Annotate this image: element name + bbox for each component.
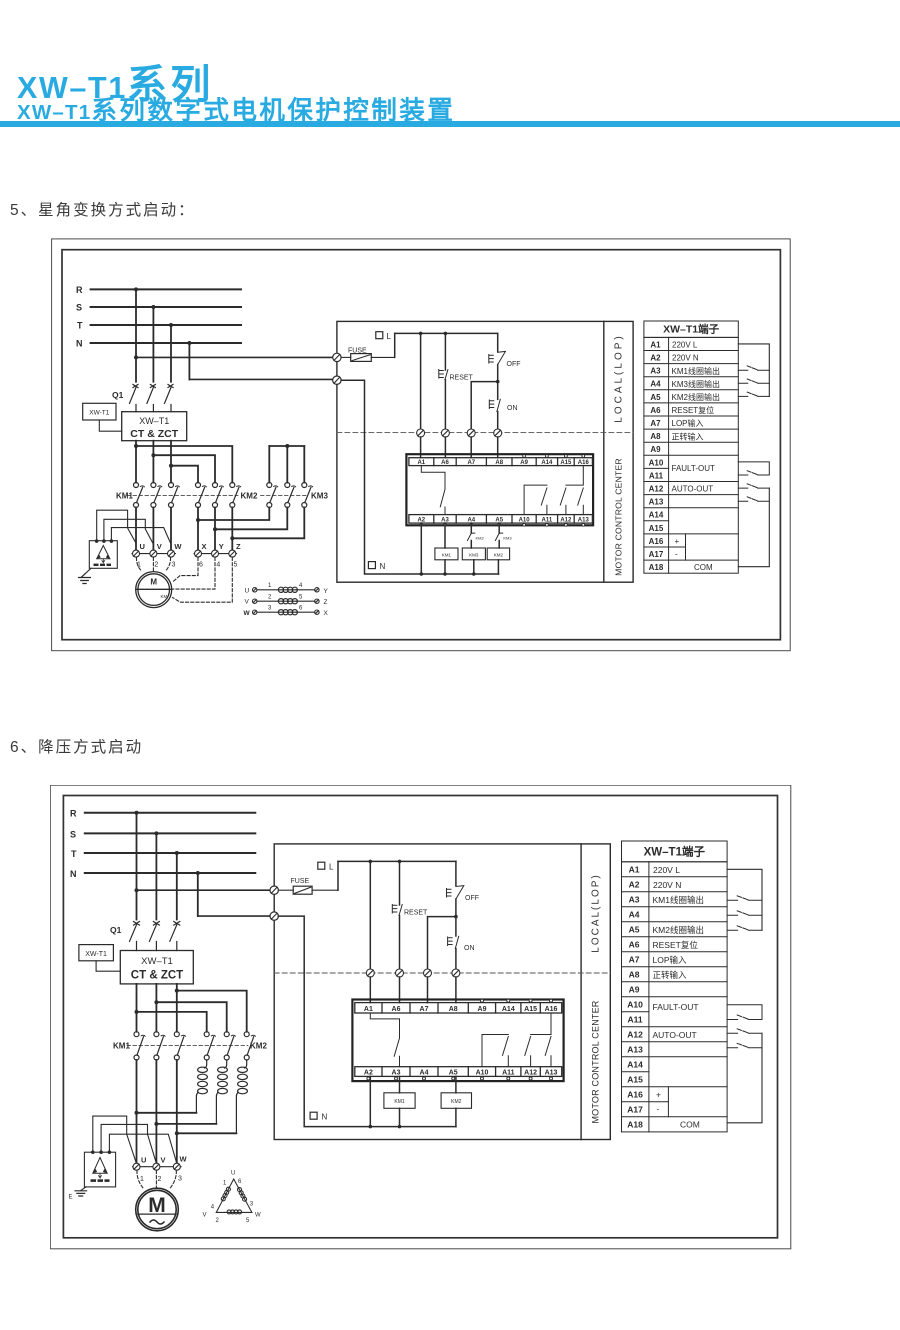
svg-text:4: 4 (211, 1205, 215, 1211)
svg-text:6: 6 (199, 562, 203, 569)
wire RESET column lower (444, 380, 446, 429)
svg-text:2: 2 (268, 594, 272, 600)
dashed link 3 to motor (166, 558, 171, 572)
labels X Y Z (202, 542, 242, 551)
external contact at A4 (738, 379, 769, 383)
coil KM1 (384, 1093, 415, 1109)
XW-T1 relay small box (79, 945, 114, 961)
svg-text:V: V (157, 542, 162, 551)
delta winding diagram (203, 1171, 262, 1225)
node (398, 1125, 402, 1129)
legend N lamp (368, 562, 385, 571)
svg-text:正转输入: 正转输入 (653, 970, 688, 980)
relay top spare terminal circles (523, 455, 585, 458)
table signal labels (672, 340, 720, 572)
wire A2 to N bus (369, 1076, 371, 1126)
external auto-out contact A12 (738, 484, 769, 488)
wire feed phase1 to KM2 pole1 (137, 1012, 207, 1032)
legend L lamp (376, 332, 392, 342)
svg-text:N: N (70, 869, 77, 879)
dashed link 1 to motor (137, 1171, 143, 1189)
svg-text:A15: A15 (524, 1006, 537, 1013)
phase line S (85, 832, 256, 834)
svg-text:A16: A16 (627, 1090, 643, 1100)
wire KM2 outputs to XYZ (198, 508, 232, 551)
external contact at A4 (727, 911, 762, 916)
relay top terminal row (355, 1003, 562, 1013)
winding W-X (244, 605, 329, 617)
section 6 heading (10, 735, 143, 757)
svg-text:AUTO-OUT: AUTO-OUT (653, 1030, 697, 1040)
MCC LOP dashed divider (274, 972, 610, 974)
svg-text:W: W (174, 542, 182, 551)
external auto-out contact A13 (738, 497, 769, 501)
winding V-Z (245, 594, 328, 606)
relay unit box (352, 1000, 563, 1082)
ZCT hook 1 (93, 1116, 137, 1164)
fuse FU (278, 878, 338, 894)
svg-text:XW-T1: XW-T1 (85, 951, 107, 958)
reactor L2 (216, 1060, 227, 1124)
wire RESET column lower (399, 916, 401, 970)
terminal X (195, 550, 202, 557)
svg-text:A5: A5 (629, 925, 640, 935)
svg-text:Y: Y (219, 542, 224, 551)
svg-text:A8: A8 (495, 460, 503, 466)
wire to A1 cell (369, 977, 371, 1003)
svg-text:A6: A6 (392, 1006, 401, 1013)
svg-text:A2: A2 (629, 880, 640, 890)
node (420, 572, 424, 576)
terminal LOP A6 (396, 969, 404, 977)
contactor KM1 poles (134, 1032, 186, 1060)
wire node to ON (455, 917, 457, 936)
contactor KM2 poles (204, 1032, 255, 1060)
svg-text:XW–T1端子: XW–T1端子 (663, 323, 720, 336)
wire node to ON (497, 382, 499, 400)
wire A2 to N bus (420, 523, 422, 574)
svg-text:-: - (657, 1104, 660, 1114)
relay top terminal row (409, 458, 593, 466)
svg-text:A6: A6 (441, 460, 449, 466)
ZCT hook 2 (104, 519, 154, 544)
svg-text:-: - (675, 550, 678, 559)
wire KM3 return 1 (198, 508, 269, 521)
svg-text:LOP输入: LOP输入 (653, 955, 688, 965)
wire R drop (136, 813, 138, 920)
legend L lamp (318, 862, 334, 872)
dashed link 6 to motor (173, 558, 198, 582)
phase line R (91, 288, 241, 290)
svg-text:Z: Z (236, 542, 241, 551)
dashed link 2 to motor (152, 558, 154, 571)
svg-text:+: + (675, 537, 680, 546)
relay unit box (406, 454, 593, 525)
node (419, 332, 423, 336)
svg-text:A17: A17 (627, 1105, 643, 1115)
svg-text:KM1线圈输出: KM1线圈输出 (653, 895, 704, 905)
ZCT hook 2 (101, 1124, 156, 1163)
svg-text:A3: A3 (650, 367, 661, 376)
wire to A6 cell (399, 977, 401, 1003)
wire reactor2 return (156, 1123, 216, 1125)
svg-text:A11: A11 (649, 471, 664, 480)
wire reactor1 return (137, 1112, 197, 1114)
svg-text:5: 5 (234, 562, 238, 569)
coil KM1 (435, 548, 458, 560)
CT ZCT box U0 (122, 412, 187, 441)
node N tap (187, 341, 191, 345)
terminal LOP A8 (494, 429, 502, 437)
svg-text:A12: A12 (560, 517, 572, 523)
earth wire (85, 568, 91, 574)
svg-text:220V N: 220V N (653, 880, 681, 890)
phase line R (85, 812, 256, 814)
svg-text:4: 4 (216, 562, 220, 569)
svg-text:KM2: KM2 (494, 553, 504, 558)
svg-text:A4: A4 (650, 380, 661, 389)
page header title (17, 52, 214, 110)
node feed3 (175, 989, 179, 993)
wire feed phase2 to KM2 pole2 (153, 455, 215, 482)
svg-text:A12: A12 (627, 1030, 643, 1040)
wire OFF column upper (497, 333, 499, 351)
relay bottom terminal row (355, 1067, 562, 1077)
table terminal ids (649, 340, 664, 572)
svg-text:N: N (380, 562, 386, 571)
dashed link 1 to motor (136, 558, 141, 572)
wire KM1 outputs to UVW (137, 1060, 177, 1163)
wire T drop (170, 325, 172, 382)
phase labels R S T N (70, 809, 77, 879)
node feed1 (134, 444, 138, 448)
wire to A7 cell (470, 437, 472, 458)
wire N riser and bus (341, 380, 498, 574)
MCC side column divider (580, 844, 582, 1140)
reactor L3 (236, 1060, 247, 1133)
svg-text:A13: A13 (627, 1045, 643, 1055)
relay bottom terminal labels (364, 1070, 558, 1077)
svg-text:W: W (255, 1213, 261, 1219)
breaker Q1 pole 2 (147, 385, 156, 412)
wire T drop (176, 853, 178, 920)
ground (69, 1191, 87, 1201)
linkage dashes (127, 495, 309, 497)
phase line T (91, 324, 241, 326)
terminal Z (229, 550, 236, 557)
node T tap (169, 323, 173, 327)
svg-text:A2: A2 (650, 354, 661, 363)
node L tap on R drop (135, 888, 139, 892)
wire fuse riser (394, 333, 396, 357)
delta labels (203, 1171, 262, 1225)
svg-text:A12: A12 (649, 485, 664, 494)
relay internal fault contact A10-A11 (524, 485, 547, 515)
interlock contact KM2 (468, 533, 485, 540)
wire phase2 below CT (155, 984, 157, 1032)
svg-text:A11: A11 (542, 517, 553, 523)
wire interlock to coil KM3 (470, 541, 472, 549)
terminal strip UVW line (133, 1166, 182, 1168)
motor M (136, 572, 172, 608)
coil KM2 (441, 1093, 471, 1109)
contactor KM1 poles (134, 483, 180, 508)
diagram 5: star-delta starting schematic (51, 238, 792, 652)
relay top terminal labels (364, 1006, 558, 1013)
svg-text:COM: COM (694, 563, 713, 572)
svg-text:V: V (161, 1156, 166, 1165)
wire KM3 return 3 (232, 508, 304, 539)
relay bottom terminal row (409, 515, 593, 524)
wire feed phase3 to KM2 pole1 (171, 466, 198, 483)
external wire A1 loop (727, 869, 762, 930)
svg-text:6: 6 (238, 1179, 242, 1185)
svg-text:OFF: OFF (507, 361, 521, 368)
svg-text:LOP输入: LOP输入 (672, 418, 704, 428)
node S tap (151, 305, 155, 309)
svg-text:A15: A15 (627, 1075, 643, 1085)
dashed link 4 to motor (172, 558, 215, 590)
svg-text:A11: A11 (502, 1070, 515, 1077)
svg-text:V: V (203, 1213, 207, 1219)
external contact at A3 (738, 366, 769, 370)
svg-text:A9: A9 (629, 985, 640, 995)
svg-text:LOCAL(LOP): LOCAL(LOP) (591, 873, 602, 952)
svg-text:5: 5 (299, 594, 303, 600)
svg-text:A2: A2 (364, 1070, 373, 1077)
relay internal fault contact A10-A11 (482, 1035, 508, 1067)
terminal LOP A7 (467, 429, 475, 437)
svg-text:A9: A9 (478, 1006, 487, 1013)
svg-text:4: 4 (299, 583, 303, 589)
terminal LOP A1 (417, 429, 425, 437)
wire reactor3 return (177, 1132, 237, 1134)
svg-text:3: 3 (250, 1202, 254, 1208)
breaker Q1 pole 2 (149, 922, 159, 951)
relay internal K1 contact A1 to A3 (370, 1013, 399, 1067)
svg-text:A10: A10 (627, 1000, 643, 1010)
node S tap (154, 831, 158, 835)
svg-text:A5: A5 (449, 1070, 458, 1077)
fuse FU (341, 348, 395, 362)
svg-text:6: 6 (299, 605, 303, 611)
ground (79, 574, 91, 584)
svg-text:A3: A3 (629, 895, 640, 905)
terminal table XW-T1 (644, 321, 738, 573)
wire S drop (152, 307, 154, 382)
relay internal K1 contact A1 to A3 (421, 466, 445, 515)
svg-text:KM2: KM2 (451, 1099, 462, 1105)
wire relay box to CT box (96, 961, 120, 971)
wire coil KM1 to N bus (399, 1108, 401, 1126)
svg-text:KM2: KM2 (250, 1042, 267, 1051)
inner frame (63, 796, 777, 1238)
delta triangle sides (216, 1179, 252, 1212)
node (369, 1125, 373, 1129)
contactor KM3 poles (267, 483, 313, 508)
svg-text:W: W (244, 610, 251, 617)
svg-text:3: 3 (178, 1176, 182, 1183)
node (175, 1131, 179, 1135)
node (369, 860, 373, 864)
breaker Q1 pole 3 (165, 385, 174, 412)
svg-text:AUTO-OUT: AUTO-OUT (672, 485, 714, 494)
node R tap (135, 811, 139, 815)
node feed1 (135, 1010, 139, 1014)
winding diagram rows (244, 583, 329, 617)
svg-text:RESET: RESET (450, 375, 474, 382)
svg-text:RESET复位: RESET复位 (653, 940, 699, 950)
svg-text:KM1: KM1 (442, 553, 452, 558)
svg-text:A7: A7 (420, 1006, 429, 1013)
svg-text:Y: Y (324, 588, 329, 595)
svg-text:U: U (245, 587, 250, 594)
ZCT sensor box (89, 539, 117, 568)
svg-text:220V L: 220V L (672, 340, 698, 349)
outer frame (50, 785, 791, 1249)
svg-text:3: 3 (172, 562, 176, 569)
node (444, 332, 448, 336)
table signal labels (653, 865, 704, 1130)
svg-text:A3: A3 (392, 1070, 401, 1077)
svg-text:A13: A13 (578, 517, 590, 523)
terminal numbers 1 2 3 (140, 1176, 182, 1184)
svg-text:A11: A11 (627, 1015, 642, 1025)
svg-text:N: N (322, 1113, 328, 1122)
ZCT hook 3 (109, 1134, 176, 1163)
phase line S (91, 306, 241, 308)
svg-text:T: T (71, 849, 77, 859)
svg-text:ON: ON (507, 405, 518, 412)
terminal W (168, 550, 175, 557)
svg-text:KM2线圈输出: KM2线圈输出 (672, 392, 720, 402)
wire feed phase3 to KM2 pole3 (177, 991, 247, 1032)
relay top terminal labels (417, 460, 589, 466)
terminal LOP A8 (452, 969, 460, 977)
wire KM3 star bridge (269, 445, 304, 447)
wire S drop (155, 833, 157, 919)
pushbutton ON (448, 936, 475, 952)
node (443, 572, 447, 576)
svg-text:A6: A6 (629, 940, 640, 950)
svg-text:KM2: KM2 (476, 536, 485, 541)
delta side coil V-side (227, 1210, 242, 1214)
svg-text:A8: A8 (650, 432, 661, 441)
svg-text:CT & ZCT: CT & ZCT (130, 428, 178, 440)
svg-text:220V N: 220V N (672, 354, 699, 363)
wire A3 to coil KM1 (444, 523, 446, 548)
svg-text:Q1: Q1 (112, 390, 124, 400)
wire ON lower (497, 412, 499, 430)
wire phase1 below CT (135, 441, 137, 483)
svg-text:A17: A17 (649, 550, 664, 559)
wire L bus (395, 332, 498, 334)
pushbutton OFF (489, 351, 521, 368)
svg-text:S: S (70, 829, 76, 839)
svg-text:XW–T1: XW–T1 (141, 956, 173, 967)
page header subtitle (17, 90, 455, 127)
header blue rule (0, 121, 900, 127)
wire to A1 cell (420, 437, 422, 458)
wire KM3 return 2 (215, 508, 287, 530)
node R tap (134, 287, 138, 291)
svg-text:KM3: KM3 (469, 553, 479, 558)
svg-text:正转输入: 正转输入 (672, 431, 704, 441)
svg-text:A13: A13 (545, 1070, 558, 1077)
wire A1 column (369, 861, 371, 969)
ZCT sensor box (84, 1150, 115, 1187)
svg-text:MOTOR CONTROL CENTER: MOTOR CONTROL CENTER (614, 458, 624, 576)
node (213, 527, 217, 531)
svg-text:A12: A12 (524, 1070, 537, 1077)
svg-text:U: U (141, 1156, 146, 1165)
terminal numbers 6 4 5 (199, 562, 238, 569)
svg-text:3: 3 (268, 605, 272, 611)
wire N drop (188, 343, 190, 379)
wire RESET column upper (444, 333, 446, 370)
wire phase2 below CT (152, 441, 154, 483)
wire KM1 outputs to UVW (136, 508, 171, 551)
node (398, 860, 402, 864)
dashed link 5 to motor (173, 558, 233, 603)
svg-text:A14: A14 (627, 1060, 643, 1070)
interlock contact KM3 (495, 533, 512, 540)
svg-text:A10: A10 (476, 1070, 489, 1077)
wire N riser and bus (278, 916, 455, 1127)
wire fuse riser (337, 861, 339, 890)
svg-text:X: X (324, 610, 329, 617)
wire OFF column upper (455, 861, 457, 885)
svg-text:A5: A5 (650, 393, 661, 402)
MCC enclosure box (274, 844, 610, 1140)
delta side coil W-side (238, 1188, 247, 1202)
svg-text:KM3: KM3 (311, 492, 328, 501)
wire A5 to interlock (498, 523, 500, 533)
svg-text:A13: A13 (649, 498, 664, 507)
node feed2 (154, 1000, 158, 1004)
relay internal auto contact A12-A13 (525, 1013, 551, 1067)
terminal V (153, 1163, 160, 1170)
terminal table XW-T1 (622, 841, 728, 1132)
wire feed phase1 to KM2 pole3 (136, 446, 232, 483)
svg-text:A4: A4 (629, 910, 640, 920)
wire A1 column (420, 333, 422, 428)
external wire A1 loop (738, 344, 769, 397)
svg-text:A18: A18 (627, 1120, 643, 1130)
svg-text:XW–T1: XW–T1 (139, 416, 169, 426)
svg-text:A8: A8 (629, 970, 640, 980)
pushbutton RESET (439, 370, 474, 382)
relay bottom terminal labels (417, 517, 589, 523)
svg-text:5: 5 (246, 1218, 250, 1224)
pushbutton ON (489, 399, 517, 412)
svg-text:KM1: KM1 (113, 1042, 130, 1051)
node (472, 572, 476, 576)
svg-text:A10: A10 (519, 517, 531, 523)
external fault-out loop A10-A11 (727, 1005, 762, 1020)
wire ON lower (455, 949, 457, 970)
node (230, 536, 234, 540)
svg-text:L: L (387, 332, 392, 341)
svg-text:M: M (150, 578, 157, 587)
delta side coil U-side (221, 1187, 230, 1201)
external contact at A3 (727, 896, 762, 901)
labels U V W (140, 542, 183, 551)
wire N to MCC (198, 915, 270, 917)
svg-text:A6: A6 (650, 406, 661, 415)
wire L to MCC (137, 889, 271, 891)
node feed3 (169, 464, 173, 468)
